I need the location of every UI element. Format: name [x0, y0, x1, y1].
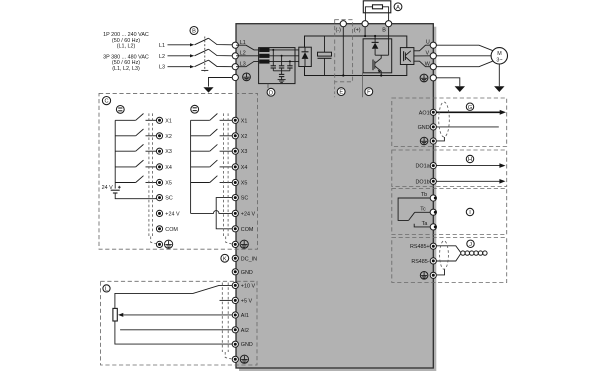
svg-text:+24 V: +24 V: [241, 211, 256, 217]
drive terminal +10V: [232, 282, 255, 289]
chopper diode: [372, 35, 379, 55]
E2 bus wire: [190, 120, 192, 213]
wire V to motor: [436, 55, 491, 57]
terminal earth G: [430, 138, 436, 144]
E1 terminal X1: [156, 117, 171, 124]
E1 terminal SC: [156, 195, 172, 202]
terminal W: [425, 61, 437, 69]
terminal RS485-: [411, 258, 436, 265]
E1 shield corridor dashed: [149, 113, 156, 243]
svg-text:Ta: Ta: [422, 221, 428, 227]
wire input PE: [209, 78, 233, 87]
svg-text:K: K: [223, 256, 227, 262]
drive terminal GND upper: [232, 269, 253, 276]
svg-text:DC_IN: DC_IN: [241, 256, 257, 262]
terminal DC plus: [354, 21, 368, 34]
callout A: [394, 3, 402, 11]
svg-text:V: V: [425, 51, 429, 57]
rectifier box: [299, 47, 312, 66]
motor M: [491, 48, 507, 64]
svg-text:+10 V: +10 V: [241, 283, 256, 289]
choke bar 2: [259, 54, 269, 58]
svg-text:SC: SC: [241, 196, 249, 202]
DC link bus loop: [305, 36, 407, 76]
E1 terminal X5: [156, 179, 171, 186]
svg-text:(L1, L2): (L1, L2): [117, 44, 136, 50]
terminal PE left: [232, 74, 238, 80]
supply text block: [103, 32, 149, 72]
breaker phase L1 label: [159, 43, 165, 49]
terminal Ta: [430, 224, 437, 230]
svg-text:B: B: [382, 27, 386, 33]
callout G: [466, 103, 473, 111]
terminal GND analog: [418, 124, 437, 131]
wire AO1 arrow: [436, 110, 506, 115]
svg-text:X1: X1: [165, 118, 172, 124]
svg-text:(+): (+): [354, 27, 361, 33]
svg-text:X2: X2: [241, 134, 248, 140]
svg-text:AI2: AI2: [241, 328, 249, 334]
svg-text:X4: X4: [165, 165, 172, 171]
wire W to motor: [436, 61, 492, 66]
breaker phase L3 label: [159, 65, 165, 71]
AO1 cable shield: [437, 102, 449, 141]
wire inverter to V: [414, 55, 432, 57]
terminal V: [425, 51, 436, 59]
EMC filter box D: [259, 48, 295, 84]
wire battery to SC: [115, 193, 156, 199]
svg-text:Tb: Tb: [421, 192, 427, 198]
terminal DO1a: [416, 163, 437, 170]
switch blade L3: [195, 60, 233, 67]
wire DO1b arrow: [436, 179, 505, 184]
svg-text:H: H: [468, 157, 472, 163]
filter capacitor branch 2: [279, 55, 284, 71]
L shield corridor dashed: [222, 283, 231, 359]
drive terminal AI2: [232, 327, 249, 334]
icon E1 (source wiring): [116, 106, 124, 114]
callout K: [221, 254, 229, 262]
E1 switch X1: [115, 114, 156, 121]
DC bus capacitor: [318, 36, 332, 76]
callout J: [467, 240, 474, 248]
wire inverter to U: [414, 45, 432, 51]
wire brake B: [388, 27, 390, 55]
callout L: [103, 285, 110, 293]
E1 switch X4: [115, 160, 156, 167]
wire L2 feed: [168, 54, 195, 57]
wire DC minus: [342, 27, 344, 77]
svg-text:+24 V: +24 V: [165, 211, 180, 217]
digital inputs dashed box C: [99, 93, 258, 249]
PE symbol left: [243, 73, 251, 81]
brake resistor R: [365, 5, 388, 21]
drive terminal SC: [232, 195, 248, 202]
E1 terminal X3: [156, 148, 171, 155]
drive terminal COM: [232, 226, 254, 233]
wire choke to rectifier phase3: [270, 60, 299, 62]
inverter box: [400, 48, 414, 65]
drive body U2 (frequency converter): [236, 24, 433, 368]
wire L2 to choke: [236, 55, 259, 57]
callout H: [466, 155, 473, 163]
E2 jumper SC to COM: [216, 198, 232, 229]
chopper IGBT Q1: [373, 55, 382, 76]
RS485 pair wires: [436, 246, 460, 261]
svg-text:RS485+: RS485+: [410, 244, 430, 250]
E1 terminal X2: [156, 133, 171, 140]
E1 bus wire: [114, 120, 116, 188]
wire drive PE right to earth: [436, 78, 459, 86]
svg-text:+5 V: +5 V: [241, 298, 253, 304]
svg-text:L1: L1: [159, 43, 165, 49]
E2 switch X2: [191, 129, 233, 136]
terminal Tc: [430, 209, 437, 215]
wire inverter to W: [414, 61, 432, 66]
wire pot to GND: [115, 321, 232, 344]
drive terminal X1: [232, 117, 247, 124]
relay output dashed box I: [392, 189, 507, 235]
terminal earth J: [430, 272, 436, 278]
svg-text:COM: COM: [241, 227, 254, 233]
wire GND analog: [436, 126, 498, 128]
svg-text:D: D: [269, 90, 273, 96]
E2 switch X1: [191, 114, 233, 121]
choke bar 1: [259, 48, 269, 52]
svg-text:X3: X3: [241, 149, 248, 155]
svg-text:3~: 3~: [496, 58, 502, 64]
wire motor earth: [498, 64, 500, 86]
choke bar 3: [259, 60, 269, 64]
callout I: [466, 208, 473, 216]
E1 switch X5: [115, 176, 156, 183]
drive terminal DC_IN: [232, 255, 257, 262]
svg-text:L: L: [105, 287, 108, 293]
terminal PE right: [430, 75, 436, 81]
callout C: [102, 97, 110, 105]
wire choke to rectifier phase1: [270, 49, 299, 51]
svg-text:SC: SC: [165, 196, 173, 202]
svg-text:U: U: [426, 39, 430, 45]
brake chopper box F: [363, 39, 392, 73]
callout F leader: [361, 73, 363, 98]
chopper inner loop: [375, 54, 389, 56]
svg-text:AO1: AO1: [419, 110, 430, 116]
relay contact Ta: [414, 221, 432, 227]
svg-text:F: F: [367, 90, 371, 96]
analog output dashed box G: [392, 98, 507, 147]
filter common rail and Y-cap: [273, 71, 290, 80]
PE symbol mid: [240, 240, 248, 248]
terminal RS485+: [410, 243, 436, 250]
wire L1 to choke: [236, 45, 259, 50]
svg-text:COM: COM: [165, 227, 178, 233]
E2 shield corridor dashed: [223, 113, 231, 244]
svg-text:W: W: [425, 61, 431, 67]
terminal L1: [232, 40, 246, 49]
svg-text:GND: GND: [241, 342, 253, 348]
drive terminal +5V: [232, 297, 252, 304]
RS485 dashed box J: [392, 238, 507, 283]
callout E: [337, 88, 345, 96]
E1 PE symbol: [165, 240, 173, 248]
svg-text:L3: L3: [159, 65, 165, 71]
drive body shadow: [239, 27, 436, 371]
icon E2 (sink wiring): [191, 105, 199, 113]
drive terminal X3: [232, 148, 247, 155]
battery 24V: [102, 185, 121, 193]
svg-text:RS485-: RS485-: [411, 259, 429, 265]
svg-text:DO1b: DO1b: [416, 179, 430, 185]
E1 terminal COM: [156, 226, 178, 233]
wire AI2 stub: [120, 329, 232, 331]
svg-text:(-): (-): [336, 27, 342, 33]
callout B (mains switch): [190, 27, 198, 35]
svg-text:X4: X4: [241, 165, 248, 171]
breaker linkage dashed: [201, 37, 208, 72]
drive terminal X5: [232, 179, 247, 186]
drive terminal X4: [232, 164, 247, 171]
drive terminal AI1: [232, 312, 249, 319]
terminal DC minus: [336, 21, 347, 34]
filter chassis earth: [278, 80, 286, 83]
drive terminal earth bottom: [232, 356, 238, 362]
relay blade Tc: [409, 206, 433, 220]
drive terminal +24V: [232, 210, 255, 217]
terminal L3: [232, 61, 246, 69]
input earth symbol: [203, 87, 213, 92]
terminal L2: [232, 50, 246, 59]
terminal B: [382, 21, 392, 34]
PE symbol right: [420, 74, 428, 82]
rectifier diode: [302, 47, 309, 66]
drive terminal earth mid: [232, 241, 238, 247]
terminal AO1: [419, 109, 437, 116]
callout D: [267, 88, 275, 96]
svg-text:GND: GND: [241, 270, 253, 276]
terminal Tb: [430, 195, 437, 201]
E1 terminal earth: [156, 241, 162, 247]
drive terminal X2: [232, 133, 247, 140]
svg-text:(L1, L2, L3): (L1, L2, L3): [112, 66, 140, 72]
terminal DO1b: [416, 178, 437, 185]
brake resistor box: [363, 1, 391, 13]
svg-text:A: A: [396, 5, 400, 11]
switch blade L1: [195, 38, 233, 45]
E2 wire bus to +24V with hop: [191, 211, 233, 214]
inverter IGBT symbol: [404, 51, 411, 62]
twisted pair coil: [461, 251, 487, 255]
wire choke to rectifier phase2: [270, 55, 299, 57]
wire DC plus: [364, 27, 366, 37]
svg-text:X1: X1: [241, 118, 248, 124]
callout E leader: [334, 82, 336, 98]
svg-text:X3: X3: [165, 149, 172, 155]
svg-text:X2: X2: [165, 134, 172, 140]
digital output dashed box H: [392, 150, 507, 187]
output earth symbol: [455, 86, 465, 92]
PE symbol bottom: [240, 355, 248, 363]
E1 terminal +24V: [156, 210, 180, 217]
wire U to motor: [436, 45, 492, 50]
motor earth symbol: [494, 86, 504, 92]
terminal U: [426, 39, 437, 48]
E2 switch X4: [191, 160, 233, 167]
RS485 cable shield: [437, 241, 448, 275]
breaker phase L2 label: [159, 54, 165, 60]
svg-text:B: B: [192, 29, 196, 35]
wire +10V to pot: [115, 285, 232, 308]
svg-text:Tc: Tc: [420, 206, 426, 212]
E1 switch X3: [115, 144, 156, 151]
wire DO1a arrow: [436, 163, 505, 168]
svg-text:J: J: [469, 242, 472, 248]
PE symbol G: [420, 137, 428, 145]
analog input dashed box L: [101, 281, 258, 365]
drive terminal GND lower: [232, 341, 253, 348]
filter capacitor branch 1: [271, 49, 276, 71]
DC link dashed box E: [335, 20, 353, 82]
PE symbol J: [420, 272, 428, 280]
svg-text:L2: L2: [159, 54, 165, 60]
svg-text:M: M: [497, 51, 502, 57]
wire L3 feed: [168, 65, 195, 68]
E2 switch X5: [191, 176, 233, 183]
wiper arrow to AI1: [118, 313, 232, 317]
svg-text:X5: X5: [165, 181, 172, 187]
wire L3 to choke: [236, 61, 259, 66]
switch blade L2: [195, 49, 233, 56]
E2 switch X3: [191, 144, 233, 151]
callout D leader: [267, 84, 269, 88]
callout F: [365, 88, 373, 96]
potentiometer R1: [113, 308, 117, 321]
relay wire Tb: [398, 192, 432, 221]
svg-text:X5: X5: [241, 181, 248, 187]
svg-text:GND: GND: [418, 125, 430, 131]
svg-text:AI1: AI1: [241, 313, 249, 319]
E1 switch X2: [115, 129, 156, 136]
svg-text:C: C: [104, 99, 108, 105]
svg-text:DO1a: DO1a: [416, 164, 430, 170]
wire L1 feed: [168, 43, 195, 46]
svg-text:G: G: [468, 105, 472, 111]
filter capacitor branch 3: [287, 60, 292, 70]
svg-text:E: E: [339, 90, 343, 96]
E1 terminal X4: [156, 164, 171, 171]
wire +5V stub: [220, 299, 233, 301]
